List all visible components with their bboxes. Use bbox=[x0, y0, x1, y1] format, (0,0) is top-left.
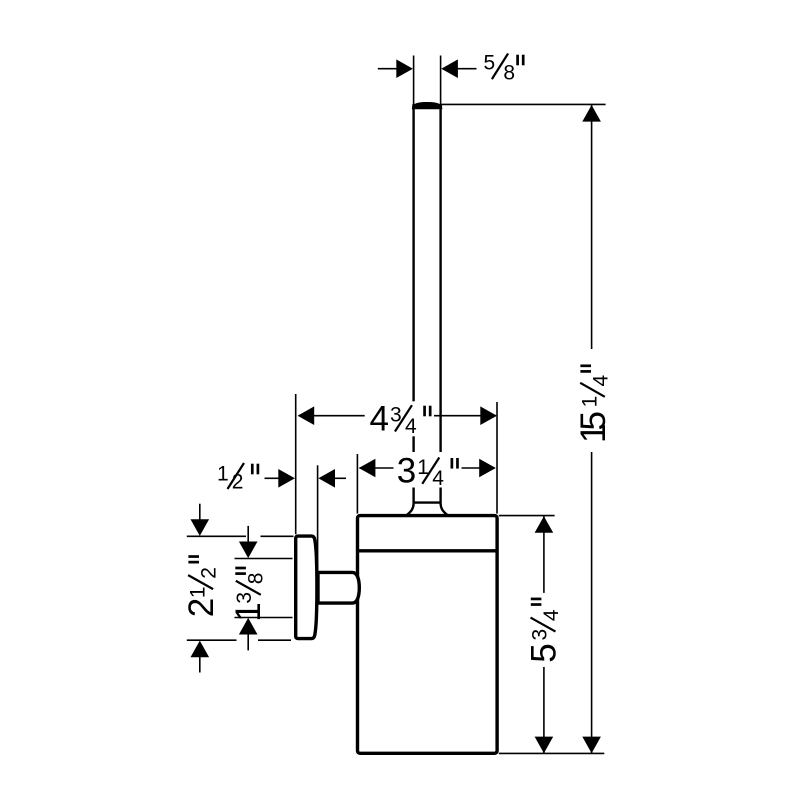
label 1 3/8 inch (rotated) bbox=[229, 568, 268, 622]
svg-text:8: 8 bbox=[503, 62, 515, 85]
extension line from holder top to 5 3/4 dimension bbox=[499, 515, 555, 517]
dimension 1/2 left tail bbox=[265, 477, 281, 479]
dimension 4 3/4 right arrowhead bbox=[480, 406, 497, 425]
tick line 2 1/2 bottom bbox=[187, 639, 237, 641]
svg-text:5: 5 bbox=[484, 52, 496, 75]
tick line 1 3/8 bottom bbox=[235, 617, 293, 619]
dimension 15 1/4 top arrowhead bbox=[582, 105, 601, 122]
svg-text:2: 2 bbox=[182, 598, 221, 617]
dimension line 15 1/4 upper segment bbox=[591, 104, 593, 349]
label 4 3/4 inch bbox=[365, 399, 434, 438]
svg-text:4: 4 bbox=[432, 467, 444, 490]
holder rim line bbox=[358, 549, 498, 552]
dimension 15 1/4 bottom arrowhead bbox=[582, 737, 601, 754]
dimension 4 3/4 left arrowhead bbox=[298, 406, 315, 425]
dimension 3 1/4 left arrowhead bbox=[359, 459, 376, 478]
svg-text:3: 3 bbox=[397, 452, 416, 491]
dimension 1/2 right tail bbox=[333, 477, 346, 479]
svg-text:3: 3 bbox=[529, 629, 552, 641]
dimension line 5 3/4 upper segment bbox=[543, 516, 545, 593]
brush handle top cap bbox=[412, 102, 442, 109]
svg-text:1: 1 bbox=[186, 586, 209, 598]
brush handle rod right edge bbox=[439, 104, 441, 503]
brush handle flare right bbox=[441, 503, 448, 515]
dimension 2 1/2 top arrow bbox=[199, 504, 201, 521]
dimension 5/8 right arrowhead bbox=[441, 59, 458, 78]
tick line 2 1/2 top bbox=[187, 535, 246, 537]
dimension line 5 3/4 lower segment bbox=[543, 667, 545, 754]
extension line wall plane (left of 4 3/4) bbox=[295, 394, 297, 534]
svg-text:4: 4 bbox=[370, 399, 389, 438]
top extension line to 15 1/4 dimension bbox=[442, 103, 606, 105]
svg-text:3: 3 bbox=[233, 592, 256, 604]
svg-text:2: 2 bbox=[198, 567, 221, 579]
tick line 1 3/8 top bbox=[235, 558, 293, 560]
mounting arm bbox=[318, 572, 359, 603]
dimension 3 1/4 right arrowhead bbox=[479, 459, 496, 478]
label 1/2 inch bbox=[217, 462, 258, 493]
svg-text:1: 1 bbox=[578, 396, 601, 408]
dimension 1 3/8 top arrow bbox=[247, 526, 249, 543]
svg-text:5: 5 bbox=[574, 411, 613, 430]
holder body outline bbox=[358, 516, 498, 754]
label 2 1/2 inch (rotated) bbox=[182, 557, 221, 618]
svg-text:5: 5 bbox=[525, 643, 564, 662]
svg-text:2: 2 bbox=[232, 471, 244, 494]
extension line holder left edge for 3 1/4 bbox=[356, 454, 358, 514]
dimension 1 3/8 bottom arrow bbox=[247, 634, 249, 650]
svg-text:4: 4 bbox=[590, 375, 613, 387]
extension line above rod left edge bbox=[413, 56, 415, 105]
brush handle rod left edge bbox=[412, 104, 414, 503]
dimension 5/8 left tail bbox=[378, 68, 399, 70]
dimension 5 3/4 top arrowhead bbox=[535, 516, 554, 533]
extension line right (holder right edge, shared 4 3/4 and 3 1/4) bbox=[496, 402, 498, 514]
dimension 5 3/4 bottom arrowhead bbox=[535, 737, 554, 754]
extension line above rod right edge bbox=[440, 56, 442, 105]
dimension 5/8 right tail bbox=[456, 68, 477, 70]
dimension line 4 3/4 bbox=[299, 415, 497, 417]
svg-text:4: 4 bbox=[540, 609, 563, 621]
brush handle joint line above flare bbox=[414, 501, 441, 503]
svg-text:8: 8 bbox=[245, 573, 268, 585]
dimension line 3 1/4 bbox=[360, 467, 495, 469]
svg-text:1: 1 bbox=[229, 602, 268, 621]
extension line behind wall plate for 1/2 dimension bbox=[317, 465, 319, 570]
dimension 1/2 left arrowhead bbox=[278, 469, 295, 488]
wall plate (escutcheon side view) bbox=[296, 536, 317, 639]
label 5 3/4 inch (rotated) bbox=[525, 593, 564, 667]
brush handle flare left bbox=[407, 503, 414, 515]
label 3 1/4 inch bbox=[394, 452, 462, 491]
svg-text:4: 4 bbox=[405, 415, 417, 438]
bottom extension line from holder to dimension lines bbox=[499, 752, 605, 754]
svg-text:1: 1 bbox=[217, 462, 229, 485]
dimension 5/8 left arrowhead bbox=[396, 59, 413, 78]
label 15 1/4 inch (rotated) bbox=[573, 349, 613, 452]
dimension 1/2 right arrowhead bbox=[318, 469, 335, 488]
label 5/8 inch bbox=[484, 52, 524, 85]
dimension line 15 1/4 lower segment bbox=[591, 452, 593, 754]
dimension 2 1/2 bottom arrow bbox=[199, 656, 201, 673]
